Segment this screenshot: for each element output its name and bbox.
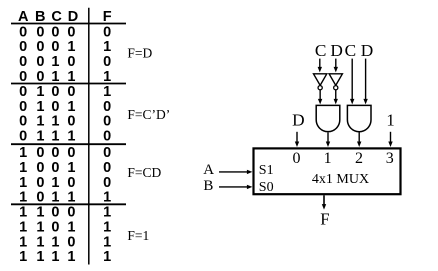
svg-text:0: 0 <box>103 160 111 176</box>
svg-text:0: 0 <box>103 175 111 191</box>
truth table horizontal rule 1 <box>11 23 126 25</box>
annotation F=D <box>127 46 152 61</box>
svg-text:1: 1 <box>324 150 332 167</box>
svg-text:S1: S1 <box>259 163 274 178</box>
svg-text:2: 2 <box>355 150 363 167</box>
svg-text:3: 3 <box>386 150 394 167</box>
svg-text:1: 1 <box>36 205 44 221</box>
annotation F=1 <box>127 228 149 243</box>
truth table horizontal rule 3 <box>11 143 126 145</box>
svg-text:1: 1 <box>19 249 27 265</box>
svg-text:1: 1 <box>67 160 75 176</box>
svg-text:1: 1 <box>36 129 44 145</box>
svg-text:0: 0 <box>67 24 75 40</box>
svg-text:0: 0 <box>103 54 111 70</box>
svg-text:0: 0 <box>293 150 301 167</box>
node F (output) <box>320 210 329 229</box>
svg-text:0: 0 <box>36 69 44 85</box>
svg-text:D: D <box>330 41 342 60</box>
svg-text:1: 1 <box>19 190 27 206</box>
truth table row 7: 0 1 1 0 | 0 <box>19 114 111 130</box>
svg-text:1: 1 <box>67 39 75 55</box>
svg-text:1: 1 <box>103 84 111 100</box>
svg-text:0: 0 <box>36 190 44 206</box>
svg-text:1: 1 <box>36 249 44 265</box>
svg-text:0: 0 <box>36 175 44 191</box>
pin label 3 <box>386 150 394 167</box>
svg-text:1: 1 <box>51 175 59 191</box>
mux label 4x1 MUX <box>312 172 369 187</box>
svg-text:D: D <box>361 41 373 60</box>
svg-text:0: 0 <box>51 160 59 176</box>
node D (input to AND gate G2) <box>361 41 373 60</box>
svg-text:D: D <box>292 111 304 130</box>
truth table header A B C D | F <box>18 9 112 25</box>
svg-text:F=CD: F=CD <box>127 165 161 180</box>
svg-text:1: 1 <box>103 205 111 221</box>
wire D' from inverter U2 to AND gate G1 <box>334 90 338 105</box>
node D (pin 0 data input) <box>292 111 304 130</box>
svg-text:1: 1 <box>67 190 75 206</box>
svg-text:1: 1 <box>67 99 75 115</box>
svg-text:0: 0 <box>103 129 111 145</box>
svg-text:1: 1 <box>19 160 27 176</box>
svg-text:4x1 MUX: 4x1 MUX <box>312 172 369 187</box>
svg-text:0: 0 <box>51 220 59 236</box>
svg-text:1: 1 <box>103 69 111 85</box>
svg-text:1: 1 <box>103 220 111 236</box>
truth table horizontal rule 4 <box>11 203 126 205</box>
svg-text:1: 1 <box>19 234 27 250</box>
truth table row 14: 1 1 0 1 | 1 <box>19 220 111 236</box>
svg-text:1: 1 <box>51 69 59 85</box>
svg-text:1: 1 <box>36 220 44 236</box>
truth table column separator line <box>88 8 90 265</box>
svg-text:1: 1 <box>51 234 59 250</box>
svg-text:0: 0 <box>67 54 75 70</box>
truth table row 6: 0 1 0 1 | 0 <box>19 99 111 115</box>
svg-text:C: C <box>345 41 357 60</box>
truth table row 2: 0 0 0 1 | 1 <box>19 39 111 55</box>
truth table row 8: 0 1 1 1 | 0 <box>19 129 111 145</box>
svg-text:1: 1 <box>19 175 27 191</box>
svg-text:A: A <box>203 162 214 178</box>
truth table row 1: 0 0 0 0 | 0 <box>19 24 111 40</box>
wire D to AND gate G2 <box>363 59 367 105</box>
pin label 2 <box>355 150 363 167</box>
svg-text:1: 1 <box>51 54 59 70</box>
svg-text:0: 0 <box>67 205 75 221</box>
truth table row 5: 0 1 0 0 | 1 <box>19 84 111 100</box>
svg-text:0: 0 <box>36 160 44 176</box>
node C (input to inverter, pin 1 path) <box>315 41 327 60</box>
svg-text:0: 0 <box>51 39 59 55</box>
truth table row 13: 1 1 0 0 | 1 <box>19 205 111 221</box>
truth table row 4: 0 0 1 1 | 1 <box>19 69 111 85</box>
inverter U2 (D') <box>329 74 342 90</box>
svg-text:1: 1 <box>103 234 111 250</box>
svg-text:B: B <box>203 178 213 194</box>
svg-text:1: 1 <box>36 99 44 115</box>
svg-text:F=1: F=1 <box>127 228 149 243</box>
node constant 1 (pin 3 data input) <box>386 111 394 130</box>
svg-text:C: C <box>315 41 327 60</box>
truth table row 15: 1 1 1 0 | 1 <box>19 234 111 250</box>
svg-text:0: 0 <box>19 39 27 55</box>
svg-text:0: 0 <box>36 54 44 70</box>
wire B to MUX S0 <box>219 185 252 189</box>
wire C to AND gate G2 <box>350 59 354 105</box>
wire G2 output to MUX pin 2 <box>357 132 361 147</box>
node D (input to inverter, pin 1 path) <box>330 41 342 60</box>
svg-text:1: 1 <box>67 220 75 236</box>
svg-text:0: 0 <box>19 99 27 115</box>
node A (select S1) <box>203 162 214 178</box>
wire G1 output to MUX pin 1 <box>326 132 330 147</box>
wire A to MUX S1 <box>219 170 252 174</box>
svg-text:1: 1 <box>67 129 75 145</box>
wire constant 1 to MUX pin 3 <box>388 132 392 147</box>
svg-text:1: 1 <box>36 234 44 250</box>
svg-text:1: 1 <box>36 84 44 100</box>
svg-text:1: 1 <box>386 111 394 130</box>
svg-text:1: 1 <box>103 39 111 55</box>
svg-text:S0: S0 <box>259 180 274 195</box>
svg-text:0: 0 <box>67 175 75 191</box>
svg-text:F: F <box>320 210 329 229</box>
and gate G2 (CD) <box>347 105 371 131</box>
node B (select S0) <box>203 178 213 194</box>
svg-text:0: 0 <box>36 24 44 40</box>
svg-text:1: 1 <box>67 249 75 265</box>
wire C' from inverter U1 to AND gate G1 <box>318 90 322 105</box>
svg-text:0: 0 <box>19 24 27 40</box>
pin label S1 <box>259 163 274 178</box>
svg-text:0: 0 <box>36 145 44 161</box>
svg-text:1: 1 <box>51 249 59 265</box>
svg-text:1: 1 <box>51 129 59 145</box>
svg-text:1: 1 <box>51 190 59 206</box>
truth table row 12: 1 0 1 1 | 1 <box>19 190 111 206</box>
annotation F=CD <box>127 165 161 180</box>
truth table horizontal rule 2 <box>11 83 126 85</box>
svg-text:1: 1 <box>103 190 111 206</box>
node C (input to AND gate G2) <box>345 41 357 60</box>
wire F output from MUX <box>322 195 326 209</box>
svg-text:0: 0 <box>19 84 27 100</box>
truth table row 11: 1 0 1 0 | 0 <box>19 175 111 191</box>
inverter U1 (C') <box>314 74 327 90</box>
svg-text:0: 0 <box>51 145 59 161</box>
wire D to MUX pin 0 <box>295 132 299 147</box>
svg-text:0: 0 <box>67 114 75 130</box>
svg-text:1: 1 <box>19 205 27 221</box>
svg-text:1: 1 <box>67 69 75 85</box>
truth table row 3: 0 0 1 0 | 0 <box>19 54 111 70</box>
mux U3 4x1 MUX body <box>254 148 401 194</box>
truth table row 9: 1 0 0 0 | 0 <box>19 145 111 161</box>
pin label 0 <box>293 150 301 167</box>
pin label S0 <box>259 180 274 195</box>
svg-text:0: 0 <box>36 39 44 55</box>
truth table row 16: 1 1 1 1 | 1 <box>19 249 111 265</box>
svg-text:0: 0 <box>51 99 59 115</box>
svg-text:1: 1 <box>36 114 44 130</box>
annotation F=C'D' <box>127 107 170 122</box>
svg-text:0: 0 <box>103 99 111 115</box>
svg-text:0: 0 <box>103 145 111 161</box>
svg-text:1: 1 <box>19 145 27 161</box>
svg-text:0: 0 <box>51 24 59 40</box>
svg-text:0: 0 <box>103 114 111 130</box>
svg-text:F=C’D’: F=C’D’ <box>127 107 170 122</box>
svg-text:F=D: F=D <box>127 46 152 61</box>
svg-text:0: 0 <box>19 129 27 145</box>
svg-text:0: 0 <box>51 84 59 100</box>
svg-text:0: 0 <box>103 24 111 40</box>
wire C to inverter U1 input <box>318 59 322 73</box>
svg-text:0: 0 <box>67 84 75 100</box>
svg-text:0: 0 <box>67 145 75 161</box>
svg-text:1: 1 <box>51 114 59 130</box>
svg-text:0: 0 <box>67 234 75 250</box>
and gate G1 (C'D') <box>316 105 340 131</box>
svg-text:0: 0 <box>19 114 27 130</box>
svg-text:0: 0 <box>19 69 27 85</box>
wire D to inverter U2 input <box>334 59 338 73</box>
truth table row 10: 1 0 0 1 | 0 <box>19 160 111 176</box>
svg-text:0: 0 <box>51 205 59 221</box>
svg-text:1: 1 <box>19 220 27 236</box>
svg-text:1: 1 <box>103 249 111 265</box>
svg-text:0: 0 <box>19 54 27 70</box>
pin label 1 <box>324 150 332 167</box>
